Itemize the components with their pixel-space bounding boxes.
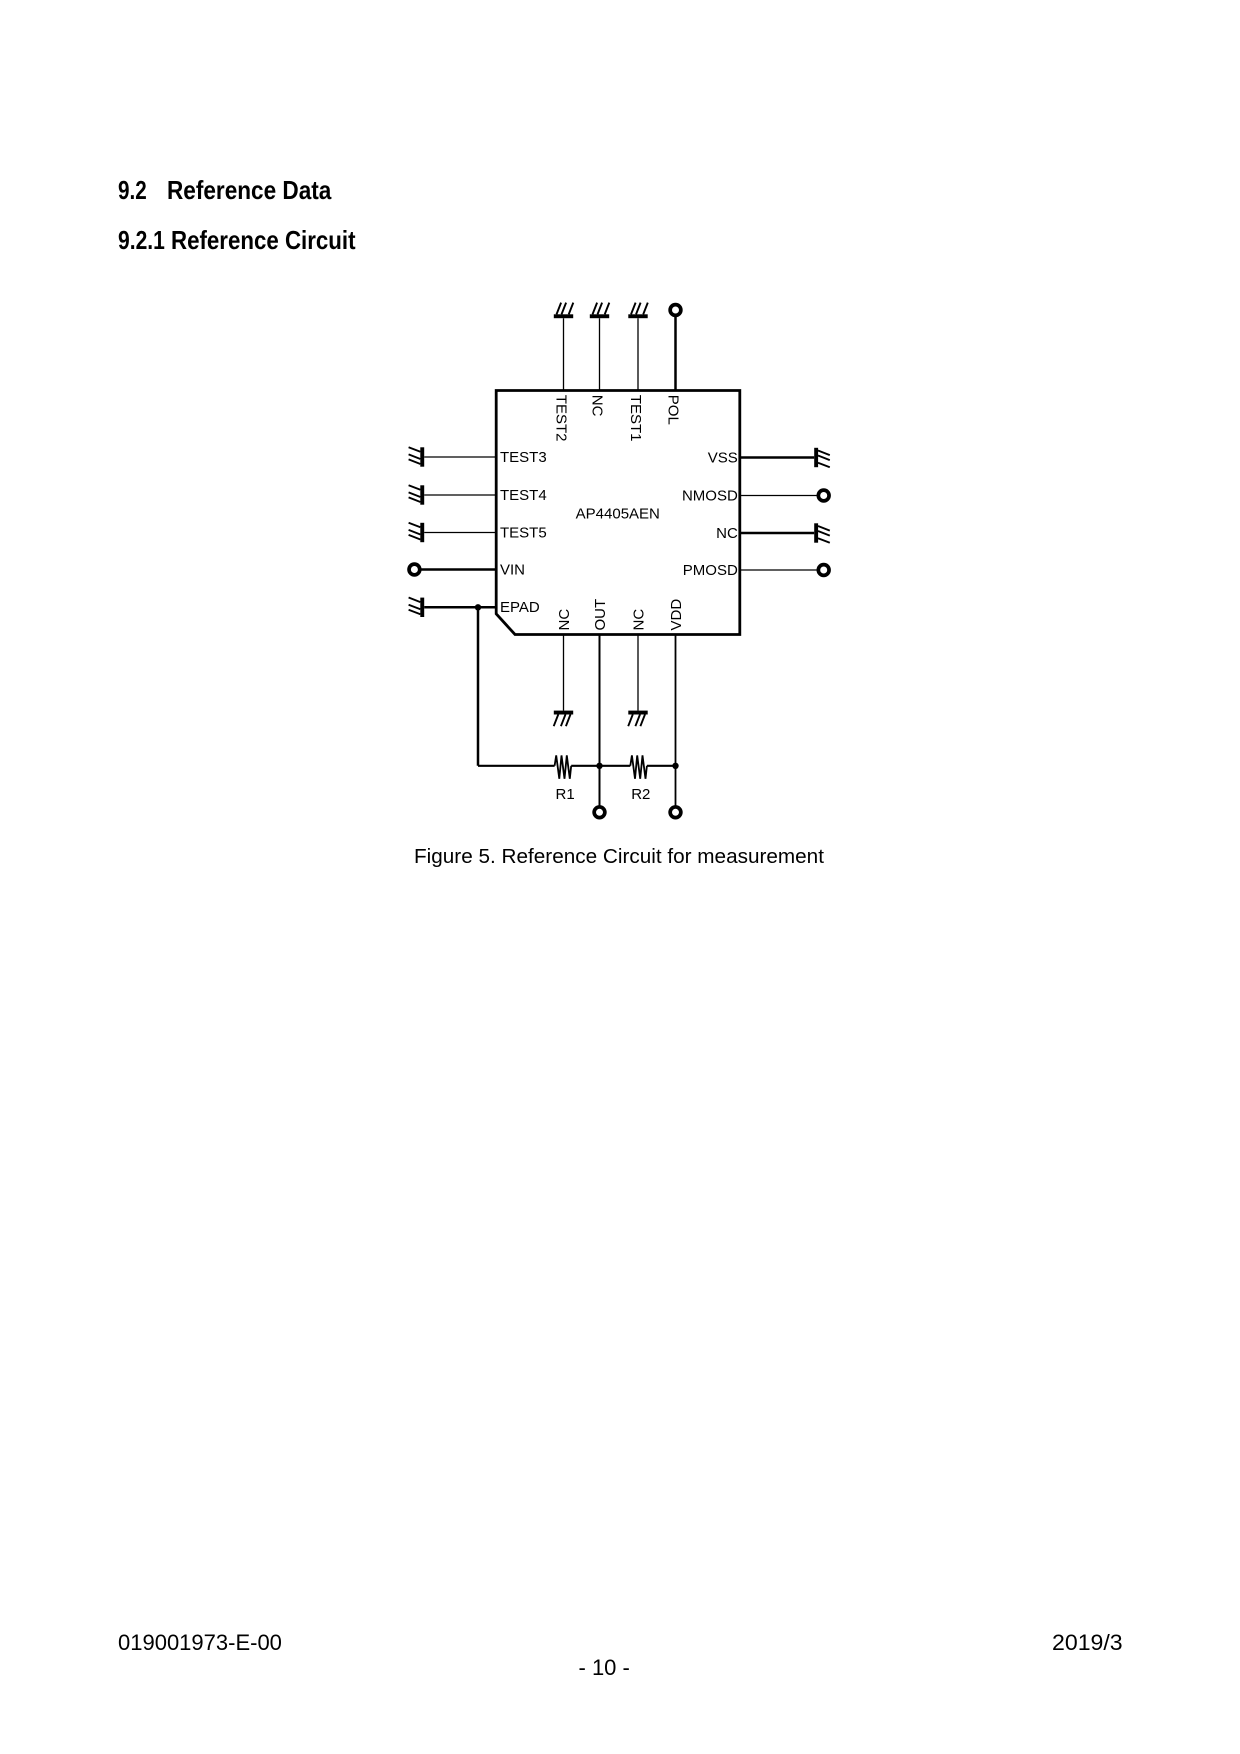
svg-text:TEST4: TEST4 [500,487,547,504]
svg-text:TEST1: TEST1 [627,395,644,442]
svg-text:NC: NC [631,609,648,631]
svg-text:AP4405AEN: AP4405AEN [576,506,660,523]
svg-text:VSS: VSS [708,449,738,466]
svg-text:TEST3: TEST3 [500,449,547,466]
svg-text:R1: R1 [556,786,575,803]
svg-text:OUT: OUT [592,599,609,631]
svg-text:NC: NC [556,609,573,631]
svg-text:POL: POL [665,395,682,425]
svg-text:NMOSD: NMOSD [682,487,738,504]
svg-text:TEST5: TEST5 [500,524,547,541]
svg-text:VDD: VDD [668,599,685,631]
svg-text:R2: R2 [631,786,650,803]
svg-text:VIN: VIN [500,561,525,578]
svg-text:TEST2: TEST2 [553,395,570,442]
svg-text:PMOSD: PMOSD [683,562,738,579]
svg-text:EPAD: EPAD [500,599,540,616]
svg-text:NC: NC [589,395,606,417]
svg-text:NC: NC [716,525,738,542]
